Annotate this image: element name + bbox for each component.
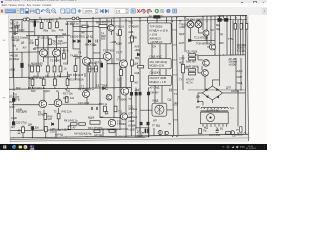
taskbar start button bbox=[3, 145, 6, 148]
svg-text:КУНДУ+ в 10 В: КУНДУ+ в 10 В bbox=[150, 29, 168, 33]
lamp HL1 bbox=[187, 21, 194, 28]
svg-text:СУД: СУД bbox=[134, 71, 139, 75]
wire mid horizontal row4 bbox=[12, 103, 100, 106]
capacitor C14 electrolytic bbox=[135, 92, 137, 95]
svg-text:ДП: ДП bbox=[196, 105, 200, 109]
svg-text:СМД ЖУС: СМД ЖУС bbox=[150, 55, 163, 59]
svg-text:СИ 0,25А: СИ 0,25А bbox=[209, 133, 221, 137]
taskbar bbox=[0, 144, 267, 150]
svg-text:С9: С9 bbox=[93, 43, 97, 47]
wire mid horizontal row y31.7 bbox=[9, 31, 34, 33]
svg-text:ТУМ: ТУМ bbox=[228, 37, 233, 41]
wire resistor column x121 bbox=[120, 68, 122, 89]
wire T5 link bbox=[88, 53, 106, 59]
resistor R62 bbox=[99, 25, 107, 28]
svg-text:ДЖ: ДЖ bbox=[196, 95, 201, 99]
svg-text:АУ СМД: АУ СМД bbox=[150, 86, 160, 90]
svg-text:ТС1 МП26Б: ТС1 МП26Б bbox=[194, 36, 209, 40]
wire v x172.5 long rail bbox=[172, 17, 174, 136]
toolbar save icon bbox=[25, 8, 29, 13]
svg-text:R54 51к: R54 51к bbox=[30, 20, 40, 24]
svg-text:+40В: +40В bbox=[16, 108, 22, 112]
resistor R44 bottom bbox=[22, 127, 25, 133]
svg-text:ЖА: ЖА bbox=[174, 101, 178, 105]
wire v x56.4 bbox=[55, 19, 58, 62]
diode VD5 bbox=[137, 53, 139, 56]
svg-text:С1 50мк: С1 50мк bbox=[9, 57, 20, 61]
resistor R35 bbox=[138, 66, 144, 69]
svg-text:ГТ908А: ГТ908А bbox=[117, 122, 126, 126]
meter P1 rounded box bbox=[152, 103, 167, 116]
bridge rectifier VD10 diamond bbox=[202, 86, 222, 100]
wire mid horizontal row y35.6 bbox=[26, 34, 70, 37]
lamp HL2 bbox=[195, 21, 202, 28]
svg-text:ТА: ТА bbox=[101, 32, 104, 36]
wire v x13 bbox=[12, 20, 14, 77]
resistor R16 bbox=[82, 25, 88, 28]
svg-text:R36 1к: R36 1к bbox=[88, 61, 97, 65]
svg-text:ТД1 ЛДЖ: ТД1 ЛДЖ bbox=[186, 50, 198, 54]
wire v x157 bbox=[156, 18, 158, 22]
resistor R55 bbox=[234, 24, 236, 30]
svg-text:АС7н: АС7н bbox=[186, 81, 193, 85]
wire T4 base bbox=[73, 56, 82, 58]
wire R16 row link bbox=[73, 19, 112, 35]
svg-text:Тр1: Тр1 bbox=[230, 106, 235, 110]
svg-text:ЖУ: ЖУ bbox=[11, 125, 15, 129]
taskbar tray speaker icon bbox=[236, 146, 239, 149]
wire lamp stubs bbox=[191, 20, 204, 41]
svg-text:220 2ТШ: 220 2ТШ bbox=[16, 121, 27, 125]
resistor R4 bbox=[48, 23, 51, 29]
wire v x147.5 bbox=[147, 18, 149, 24]
junction dots bbox=[26, 17, 27, 18]
capacitor C17b bar bbox=[147, 129, 149, 134]
wire v x29 bbox=[28, 20, 30, 89]
svg-text:ДЖ: ДЖ bbox=[134, 62, 139, 66]
taskbar viewer icon (active) bbox=[30, 145, 35, 150]
transistor T2 bbox=[53, 49, 61, 57]
svg-text:СД: СД bbox=[168, 98, 172, 102]
wire transformer top leads bbox=[198, 102, 203, 106]
svg-text:СПР: СПР bbox=[179, 57, 185, 61]
node dot bridge left bbox=[197, 101, 198, 102]
svg-text:820: 820 bbox=[101, 37, 106, 41]
svg-text:3ПМБ: 3ПМБ bbox=[38, 113, 45, 117]
svg-text:R36: R36 bbox=[98, 61, 103, 65]
wire right horizontal y40.5 bbox=[188, 40, 215, 42]
resistor R5 bbox=[56, 22, 59, 28]
wire v x114 bbox=[113, 19, 115, 118]
resistor R23 bbox=[47, 66, 50, 72]
svg-text:АСП: АСП bbox=[179, 41, 185, 45]
wire v x183 bbox=[182, 55, 184, 90]
resistor R28 bbox=[42, 79, 45, 86]
wire bridge top lead bbox=[212, 80, 219, 86]
transistor T7 bbox=[83, 91, 90, 98]
svg-text:Т11: Т11 bbox=[118, 110, 123, 114]
svg-text:ТОИ МП26Б: ТОИ МП26Б bbox=[196, 42, 211, 46]
schematic content bbox=[0, 15, 267, 144]
resistor R29 bbox=[54, 79, 57, 86]
svg-text:R2 1к R4 2к: R2 1к R4 2к bbox=[28, 64, 43, 68]
svg-text:МДЖ: МДЖ bbox=[88, 116, 95, 120]
taskbar explorer icon bbox=[19, 146, 22, 149]
wire bridge right lead bbox=[223, 90, 246, 135]
svg-text:РУС: РУС bbox=[240, 147, 245, 149]
transistor T8 bbox=[121, 87, 129, 95]
transistor T13 bbox=[203, 30, 209, 36]
svg-text:СУ: СУ bbox=[45, 74, 49, 78]
svg-text:ИП: ИП bbox=[153, 119, 157, 123]
binding mark top bbox=[3, 39, 6, 41]
svg-text:30к Д9: 30к Д9 bbox=[12, 38, 20, 42]
resistor R21 bbox=[31, 66, 34, 72]
transistor T5 bbox=[103, 52, 111, 60]
capacitor C7 bbox=[170, 89, 171, 92]
svg-text:АИ ЧД: АИ ЧД bbox=[94, 133, 102, 137]
resistor R51 bbox=[57, 114, 60, 119]
resistor R48 bottom bbox=[94, 130, 100, 133]
svg-text:МЖ: МЖ bbox=[16, 86, 21, 90]
resistor R27 bbox=[31, 79, 34, 86]
resistor R25 bbox=[53, 66, 56, 72]
resistor R3 bbox=[40, 23, 43, 29]
resistor R41 bbox=[71, 123, 78, 126]
label box C17 frame bbox=[136, 127, 149, 137]
wire box links bbox=[152, 44, 166, 103]
svg-text:02.11.2021: 02.11.2021 bbox=[246, 148, 257, 150]
wire v x38 bbox=[37, 36, 39, 78]
menu bar bbox=[0, 3, 267, 6]
svg-text:АУ6: АУ6 bbox=[135, 45, 140, 49]
resistor R36 bbox=[88, 66, 91, 72]
capacitor C21 bottom bbox=[216, 129, 219, 133]
resistor R39 bbox=[74, 66, 77, 72]
svg-text:ТУ: ТУ bbox=[174, 92, 178, 96]
svg-text:ОО2НБ: ОО2НБ bbox=[53, 42, 62, 46]
svg-text:АИ6-ВСО: АИ6-ВСО bbox=[150, 37, 161, 41]
svg-text:СМ ЖУ: СМ ЖУ bbox=[150, 91, 159, 95]
toolbar next page icon bbox=[105, 9, 108, 13]
plug curl bbox=[244, 132, 249, 134]
svg-text:468Р: 468Р bbox=[14, 26, 20, 30]
resistor R42 bbox=[79, 123, 86, 126]
wire v x48 bbox=[48, 19, 50, 77]
diode VD7 bbox=[103, 87, 106, 90]
svg-text:+ВД: +ВД bbox=[135, 48, 140, 52]
meter P1 dial bbox=[155, 105, 164, 114]
svg-text:АИ ЖД ЖД Чд: АИ ЖД ЖД Чд bbox=[74, 132, 92, 136]
transistor T6 bbox=[119, 60, 127, 68]
wire bottom bus 2 bbox=[10, 137, 145, 139]
wire v x107 bbox=[106, 19, 108, 89]
svg-text:+40,5В: +40,5В bbox=[128, 36, 137, 40]
wire left rail bbox=[13, 20, 14, 91]
svg-text:С13*: С13* bbox=[218, 15, 224, 18]
resistor R45 bottom bbox=[44, 126, 47, 131]
svg-text:МД: МД bbox=[204, 126, 208, 130]
resistor R52 bottom bbox=[68, 126, 71, 129]
svg-text:4700мк: 4700мк bbox=[128, 107, 138, 111]
svg-text:560: 560 bbox=[31, 89, 36, 93]
resistor R12 bbox=[36, 39, 39, 45]
toolbar cut icon bbox=[36, 8, 40, 13]
svg-text:1/1: 1/1 bbox=[116, 9, 121, 13]
wire v x166.5 bbox=[166, 17, 168, 23]
wire right horizontal y55 bbox=[198, 54, 246, 57]
svg-text:+1В: +1В bbox=[135, 88, 140, 92]
wire v x22 bbox=[21, 20, 23, 78]
wire v x60.5 bbox=[60, 48, 62, 78]
page bottom edge bbox=[10, 138, 250, 142]
svg-text:МОДУ,0 + 1 В: МОДУ,0 + 1 В bbox=[150, 80, 166, 84]
capacitor C15 electrolytic bbox=[139, 92, 141, 95]
wire mid horizontal row y47.9 bbox=[34, 47, 68, 49]
capacitor C12 electrolytic bbox=[130, 92, 132, 95]
transistor T14 bbox=[210, 44, 216, 50]
wire T14 base bbox=[207, 46, 210, 48]
wire x238 down bbox=[237, 90, 239, 134]
diode VD1 bbox=[73, 40, 75, 43]
capacitor C11 bbox=[96, 107, 97, 110]
transistor T16 bbox=[202, 70, 209, 77]
resistor R61 bbox=[189, 58, 196, 60]
svg-text:ОУ: ОУ bbox=[153, 45, 157, 49]
toolbar green play icon bbox=[155, 8, 159, 12]
svg-text:ПИТ: ПИТ bbox=[9, 100, 15, 104]
capacitor C20b bottom bar bbox=[32, 127, 34, 131]
toolbar fullscreen icon bbox=[72, 8, 76, 12]
resistor R32 bbox=[131, 36, 134, 42]
connector circle XS2 bbox=[230, 131, 234, 135]
svg-text:МОЗ КТ801А: МОЗ КТ801А bbox=[68, 78, 84, 82]
svg-text:СУ: СУ bbox=[117, 78, 121, 82]
toolbar grid icon bbox=[173, 9, 177, 13]
wire v x136 bbox=[135, 88, 137, 130]
svg-text:Т2 МП41: Т2 МП41 bbox=[50, 59, 61, 63]
svg-text:ТУ: ТУ bbox=[128, 97, 132, 101]
svg-text:ТД: ТД bbox=[116, 33, 119, 37]
resistor R43 wide bbox=[90, 121, 100, 124]
svg-text:ГТ906А: ГТ906А bbox=[118, 98, 127, 102]
wire top bus bbox=[10, 15, 247, 20]
toolbar info icon bbox=[166, 8, 170, 13]
svg-text:Т12 КТ3: Т12 КТ3 bbox=[44, 19, 54, 23]
wire mid horizontal row y58.5 bbox=[43, 56, 56, 58]
resistor R63 bbox=[189, 69, 196, 71]
capacitor C13 block bbox=[218, 19, 222, 22]
wire T3 base lead bbox=[106, 25, 109, 27]
svg-text:МД: МД bbox=[216, 23, 220, 27]
wire T9 T10 columns bbox=[14, 92, 59, 130]
svg-text:ТДЖ: ТДЖ bbox=[179, 32, 185, 36]
wire mid horizontal row y52.2 bbox=[9, 51, 40, 53]
svg-text:Т5 ГТ402: Т5 ГТ402 bbox=[103, 49, 115, 53]
svg-text:В1: В1 bbox=[220, 127, 224, 131]
svg-text:АИ6: АИ6 bbox=[128, 30, 134, 34]
svg-text:11: 11 bbox=[67, 9, 70, 13]
transistor T10 bbox=[54, 99, 62, 107]
svg-text:СМУ: СМУ bbox=[237, 75, 243, 79]
svg-text:+40,5В СУ: +40,5В СУ bbox=[150, 40, 163, 44]
transformer TR1 pins bbox=[203, 124, 227, 127]
svg-text:R42 12А: R42 12А bbox=[62, 110, 72, 114]
switch S1 bbox=[216, 127, 219, 131]
svg-text:×100В: ×100В bbox=[229, 62, 237, 66]
svg-text:СМ ДЖУ: СМ ДЖУ bbox=[150, 71, 161, 75]
taskbar edge icon bbox=[12, 145, 16, 149]
toolbar 1:1 icon bbox=[66, 8, 70, 12]
wire v x87 bbox=[86, 22, 88, 105]
capacitor C20 bottom bbox=[18, 129, 21, 133]
wire v x126 bbox=[125, 18, 127, 136]
toolbar zoom combo bbox=[83, 8, 98, 13]
svg-text:АИЕ МП: АИЕ МП bbox=[186, 60, 196, 64]
toolbar zoom-in icon bbox=[46, 8, 51, 13]
svg-text:А30: А30 bbox=[63, 62, 68, 66]
svg-text:ЖУ: ЖУ bbox=[134, 81, 138, 85]
capacitor C5 bbox=[12, 32, 17, 35]
motor M1 circle bbox=[207, 114, 215, 122]
resistor R50 bbox=[44, 114, 47, 120]
toolbar red X button bbox=[1, 9, 3, 12]
svg-text:СД: СД bbox=[219, 32, 223, 36]
wire T4 emitter bbox=[84, 61, 86, 77]
svg-text:х16В: х16В bbox=[128, 119, 134, 123]
svg-text:АЗИ: АЗИ bbox=[9, 105, 14, 109]
taskbar tray icon 1 bbox=[227, 146, 229, 148]
svg-text:2В ДЖ1 ДЖ2: 2В ДЖ1 ДЖ2 bbox=[186, 18, 202, 22]
transistor T1 bbox=[40, 49, 48, 57]
svg-text:Т7Б: Т7Б bbox=[128, 21, 133, 25]
svg-text:ЖК: ЖК bbox=[81, 31, 85, 35]
svg-text:ОУ: ОУ bbox=[128, 41, 132, 45]
svg-text:ДЖ: ДЖ bbox=[28, 123, 33, 127]
transformer TR1 primary bumps bbox=[201, 107, 228, 109]
svg-text:СТАБИЛ: СТАБИЛ bbox=[128, 25, 139, 29]
resistor R33 bbox=[131, 60, 134, 66]
wire meter leads bbox=[140, 109, 172, 111]
toolbar overflow chevron bbox=[263, 8, 267, 13]
wire v x80 bbox=[79, 19, 81, 88]
toolbar delete icon bbox=[137, 9, 140, 12]
svg-text:R41 R42 2к: R41 R42 2к bbox=[64, 119, 78, 123]
diode VD2 bbox=[78, 40, 80, 43]
wire v x34.8 bbox=[34, 20, 36, 36]
svg-text:ТУР /3000/: ТУР /3000/ bbox=[150, 25, 163, 29]
resistor R70 bbox=[199, 129, 202, 134]
toolbar gallery icon bbox=[131, 8, 135, 12]
svg-text:ЖМ: ЖМ bbox=[219, 41, 224, 45]
label box B3 bbox=[148, 75, 171, 85]
svg-text:АИ ЧД ЖД Чд: АИ ЧД ЖД Чд bbox=[101, 127, 118, 131]
svg-text:МД: МД bbox=[33, 75, 37, 79]
svg-text:х50В: х50В bbox=[9, 68, 15, 72]
wire v x16.4 bbox=[15, 26, 17, 32]
capacitor C19 electrolytic bbox=[147, 122, 149, 125]
svg-text:АДЖ: АДЖ bbox=[237, 69, 244, 73]
transistor T12 bbox=[108, 119, 115, 126]
wire v x131.5 bbox=[131, 18, 133, 136]
svg-text:4700м: 4700м bbox=[137, 131, 145, 135]
capacitor C16 electrolytic bar bbox=[34, 21, 36, 27]
wire v x73 bbox=[73, 22, 80, 49]
wire v x120 bbox=[119, 19, 121, 130]
svg-text:АСВЖ: АСВЖ bbox=[128, 124, 136, 128]
paper texture bbox=[9, 15, 249, 142]
capacitor C1 electrolytic bbox=[21, 63, 24, 67]
svg-text:R62 470: R62 470 bbox=[96, 21, 106, 25]
svg-text:4700мк: 4700мк bbox=[128, 115, 138, 119]
capacitor C17 electrolytic bbox=[147, 92, 149, 95]
wire resistor column x96 bbox=[95, 61, 97, 88]
label box B1 bbox=[148, 23, 171, 44]
diode VD4 bbox=[189, 39, 191, 42]
connector X1 pin circles bbox=[23, 18, 26, 21]
transistor T3 bbox=[108, 25, 115, 32]
svg-text:ДБ: ДБ bbox=[149, 15, 153, 18]
svg-text:+40,5В: +40,5В bbox=[10, 54, 19, 58]
resistor R34 bbox=[131, 76, 134, 82]
svg-text:ТГ МД: ТГ МД bbox=[152, 124, 160, 128]
svg-text:АИ226: АИ226 bbox=[231, 89, 239, 93]
svg-text:МД10: МД10 bbox=[43, 89, 50, 93]
taskbar tray language icon bbox=[240, 147, 245, 149]
page right border bbox=[247, 15, 249, 141]
svg-text:Т7 ГТ404А: Т7 ГТ404А bbox=[78, 88, 91, 92]
wire v x41.6 bbox=[42, 19, 44, 62]
svg-text:(Л): (Л) bbox=[9, 95, 13, 99]
svg-text:ЖУ: ЖУ bbox=[23, 46, 27, 50]
svg-text:ДЛ7: ДЛ7 bbox=[226, 86, 231, 90]
svg-text:ТМ: ТМ bbox=[210, 28, 214, 32]
svg-text:СМ,ОУТ 400В: СМ,ОУТ 400В bbox=[150, 76, 167, 80]
wire bottom connect bbox=[10, 129, 128, 131]
wire left bottom stubs bbox=[23, 126, 70, 139]
svg-text:+ 10 В: + 10 В bbox=[150, 33, 158, 37]
wire right horizontal y90 bbox=[188, 89, 246, 91]
wire mid horizontal row3 y88.8 bbox=[9, 88, 131, 90]
capacitor C17a bar bbox=[145, 129, 147, 134]
wire bridge left lead bbox=[198, 93, 202, 103]
svg-text:ТЖД: ТЖД bbox=[237, 81, 243, 85]
svg-text:4,1ОД): 4,1ОД) bbox=[237, 49, 245, 53]
taskbar show desktop bbox=[264, 145, 266, 150]
transistor T8b bbox=[106, 94, 112, 100]
resistor R60 bbox=[189, 54, 196, 56]
transformer TR1 secondary box bbox=[201, 112, 229, 124]
wire T6 base bbox=[107, 58, 119, 64]
toolbar rotate-right icon bbox=[147, 9, 152, 13]
wire v x100 bbox=[99, 19, 101, 118]
resistor R1 bbox=[15, 26, 18, 32]
capacitor C8 electrolytic bbox=[101, 63, 103, 67]
resistor R26 bbox=[59, 66, 62, 72]
taskbar clock bbox=[246, 146, 257, 150]
resistor R14 bbox=[63, 53, 66, 59]
wire second top bus bbox=[66, 19, 247, 21]
capacitor C3 electrolytic bbox=[12, 99, 15, 102]
transistor T15 bbox=[203, 60, 210, 67]
binding mark bottom bbox=[3, 97, 5, 99]
capacitor C13b block bbox=[224, 18, 228, 21]
wire v x67.5 bbox=[67, 22, 69, 79]
wire right text col bbox=[236, 58, 241, 90]
svg-text:КТ961А: КТ961А bbox=[115, 25, 124, 29]
svg-text:/7Н6: /7Н6 bbox=[29, 41, 35, 45]
svg-text:ТИ: ТИ bbox=[10, 22, 14, 26]
